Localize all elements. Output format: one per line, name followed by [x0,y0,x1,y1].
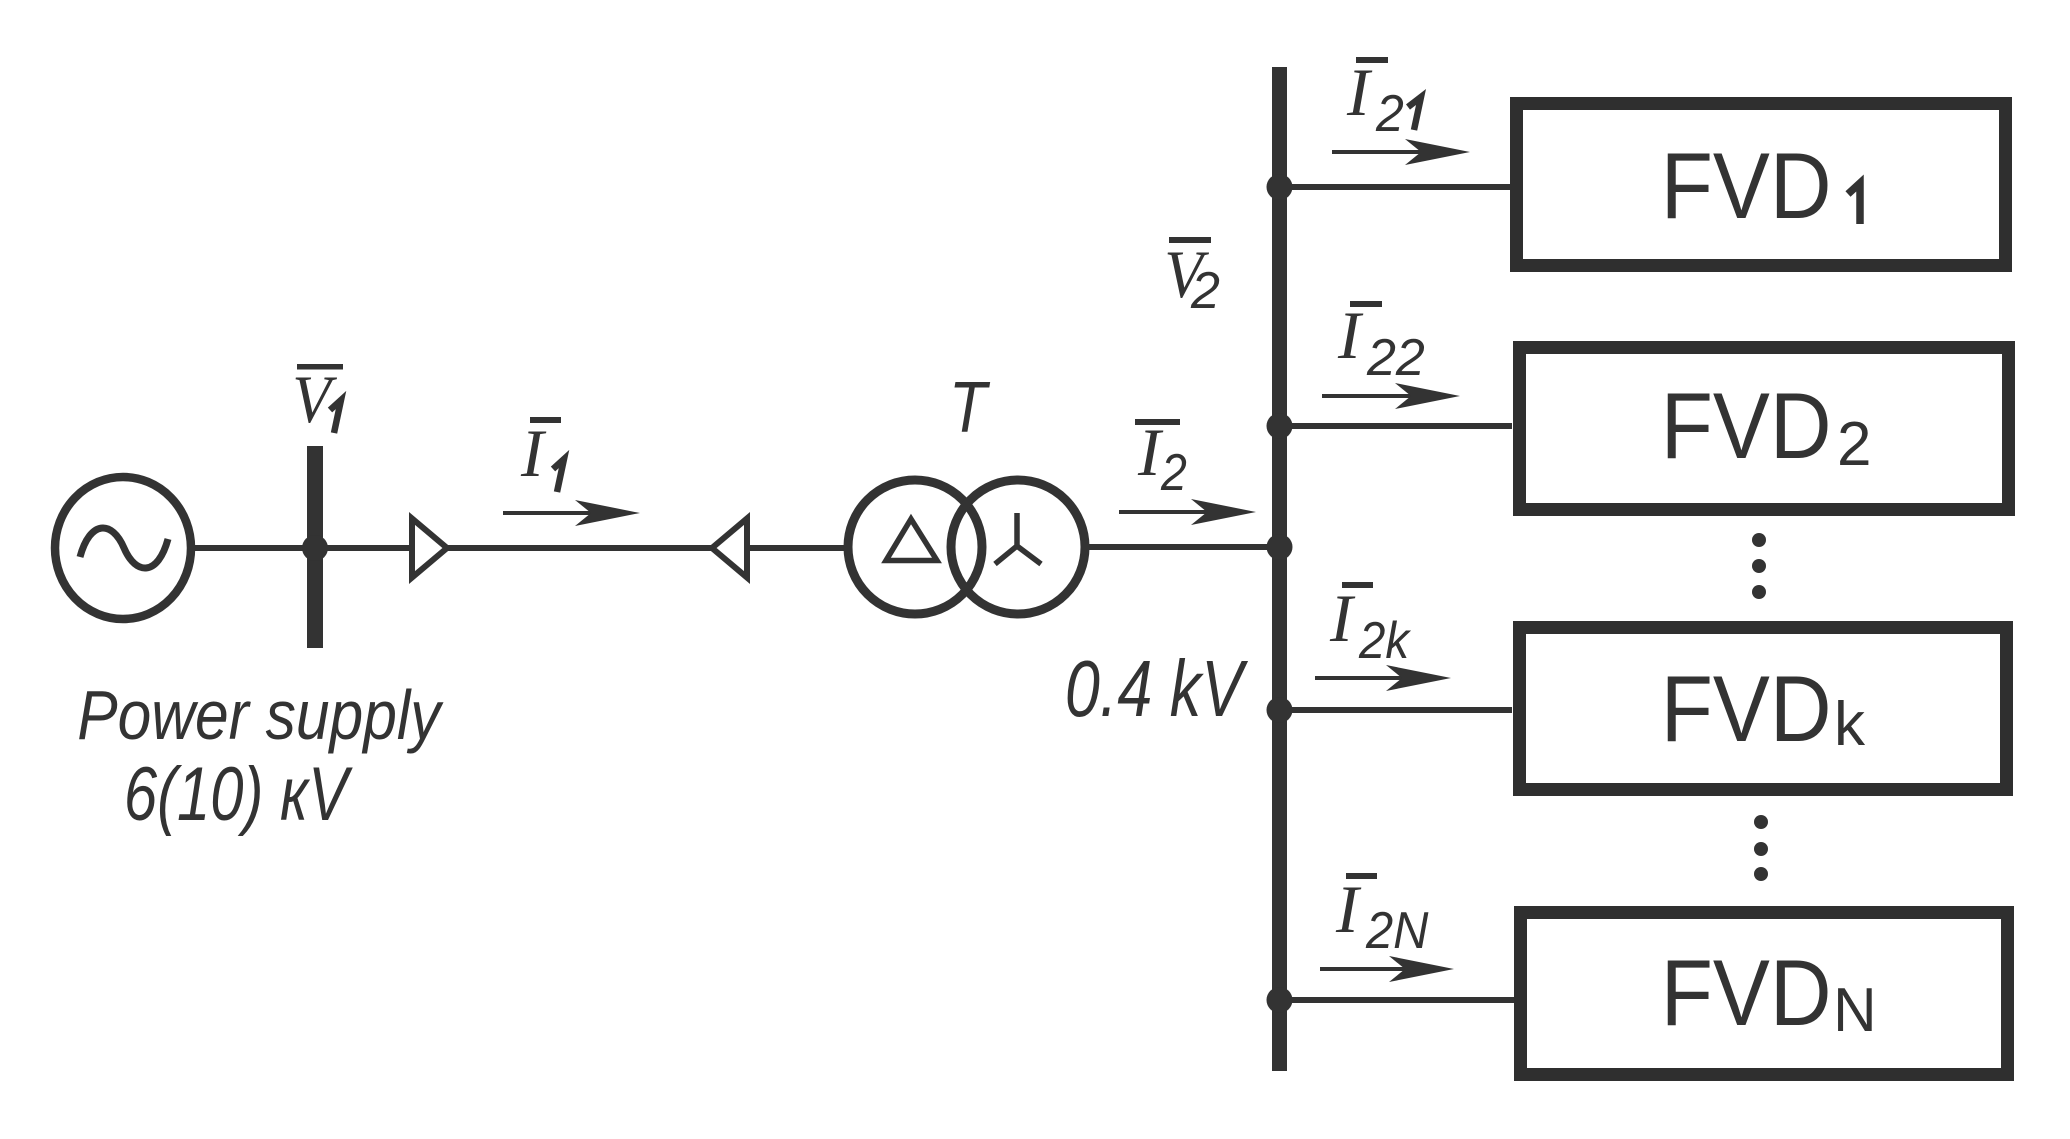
AC source circle (power supply generator) [55,477,191,619]
label I1 with current arrow [503,415,640,526]
svg-text:2: 2 [1190,262,1220,320]
svg-text:2: 2 [1837,410,1871,479]
FVDk box [1520,628,2007,790]
svg-text:FVD: FVD [1661,134,1832,239]
label V1 [292,362,343,438]
label I2 with current arrow [1119,414,1256,525]
ellipsis dots between FVDk and FVDN [1754,815,1768,881]
wire bus V1 to line arrow 1 [322,545,412,551]
svg-text:I: I [1335,871,1362,947]
svg-text:FVD: FVD [1661,657,1832,762]
junction on bus V1 [302,535,328,561]
svg-text:T: T [949,367,990,448]
wire transformer to bus V2 [1085,544,1273,550]
svg-text:FVD: FVD [1661,941,1832,1046]
wire line arrow 2 to transformer [747,545,852,551]
svg-text:N: N [1833,975,1876,1044]
wire between line arrows [447,545,713,551]
line arrow symbol 1 (open triangle pointing right) [412,519,447,578]
label I2k with current arrow [1315,580,1451,691]
ellipsis dots between FVD2 and FVDk [1752,533,1766,599]
svg-text:I: I [1329,580,1356,656]
transformer T primary winding (delta) [848,480,982,614]
svg-text:Power supply: Power supply [77,676,443,754]
junction bus V2 branch N [1267,987,1293,1013]
svg-text:0.4 kV: 0.4 kV [1065,645,1248,734]
label I21 with current arrow [1332,54,1470,165]
wire bus V2 to FVD2 [1287,423,1512,429]
svg-text:I: I [1346,54,1373,130]
junction bus V2 branch 2 [1267,413,1293,439]
label V2 [1164,237,1220,320]
svg-text:FVD: FVD [1661,374,1832,479]
svg-text:V: V [292,362,337,438]
svg-text:22: 22 [1366,329,1425,387]
wire source to bus V1 [190,545,309,551]
svg-text:6(10) кV: 6(10) кV [124,752,353,836]
svg-text:2: 2 [1375,84,1404,142]
label Power supply 6(10) kV [77,676,443,837]
svg-text:2N: 2N [1365,901,1429,960]
label I22 with current arrow [1322,297,1460,409]
line arrow symbol 2 (open triangle pointing left) [712,519,747,578]
svg-text:I: I [520,415,547,491]
label I2N with current arrow [1320,871,1454,982]
bus V1 [307,446,323,648]
svg-text:I: I [1137,414,1164,490]
FVD2 box [1520,348,2009,510]
junction bus V2 main input [1267,534,1293,560]
junction bus V2 branch k [1267,697,1293,723]
junction bus V2 branch 1 [1267,174,1293,200]
transformer T secondary winding (wye) [951,480,1085,614]
FVD1 box [1517,104,2006,266]
bus V2 (0.4 kV busbar) [1272,67,1287,1071]
wire bus V2 to FVD1 [1287,184,1512,190]
wire bus V2 to FVDN [1287,997,1514,1003]
wire bus V2 to FVDk [1287,707,1512,713]
svg-text:2k: 2k [1358,611,1411,670]
FVDN box [1521,913,2008,1075]
svg-text:k: k [1834,690,1866,759]
svg-text:2: 2 [1160,444,1187,502]
svg-text:I: I [1337,297,1364,373]
